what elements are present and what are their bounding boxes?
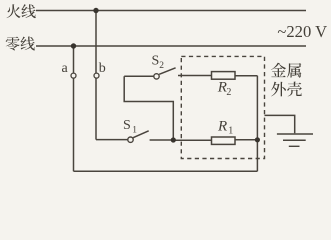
metal case label 金属 [271,63,302,78]
wire: b drop from live wire [95,11,97,140]
svg-text:S: S [152,53,160,68]
svg-text:a: a [62,61,69,76]
wire: bottom return [74,170,258,172]
neutral wire (零线) [36,45,306,47]
junction dot R1 right on right bus [255,137,260,142]
live wire (火线) [36,10,306,12]
ground wire from case [265,115,295,133]
wire: S1 fixed contact to node X [150,139,174,141]
svg-text:S: S [123,118,131,133]
svg-text:R: R [217,119,227,135]
svg-text:2: 2 [226,87,231,98]
resistor R2 [212,72,236,80]
junction dot on neutral wire (a tap) [71,43,76,48]
resistor R1 [212,137,236,144]
ground symbol [277,134,313,146]
wire: branch to S2 pivot [124,75,153,77]
svg-text:2: 2 [159,61,164,71]
wire: right bus down [256,76,258,172]
live wire label 火线 [7,4,36,18]
switch S1 pivot circle [128,137,133,142]
wire: R2 right lead [235,75,257,77]
svg-text:b: b [99,61,106,76]
svg-text:~220 V: ~220 V [277,22,327,41]
wire: node X to R1 left lead [173,139,211,141]
wire: node X up and over to S2 branch [124,76,173,140]
wire: R1 right lead [235,139,257,141]
terminal a circle [71,73,76,78]
terminal b circle [94,73,99,78]
switch S1 blade (open) [133,131,149,138]
wire: S2 fixed contact to R2 left lead [178,75,212,77]
wire: a drop from neutral wire [73,46,75,171]
metal case dashed box [181,56,264,158]
switch S2 pivot circle [154,74,159,79]
svg-text:1: 1 [132,125,137,135]
junction dot node X [171,137,176,142]
junction dot on live wire (b tap) [93,8,98,13]
neutral wire label 零线 [6,37,35,51]
switch S2 blade (open) [159,68,175,75]
wire: b corner to S1 pivot [96,139,128,141]
svg-text:1: 1 [228,125,233,136]
metal case label 外壳 [271,82,302,97]
